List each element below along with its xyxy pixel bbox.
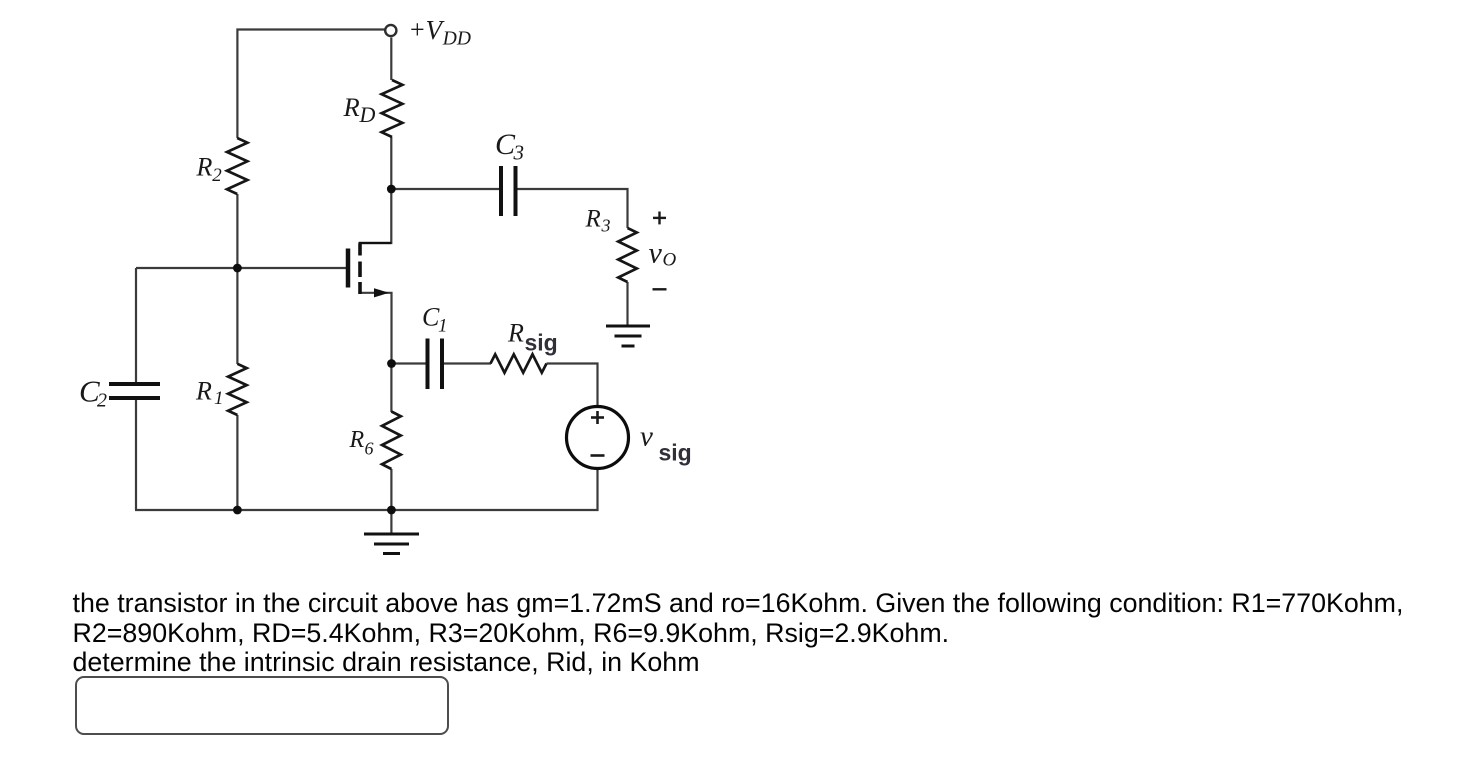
svg-text:1: 1 xyxy=(438,316,448,337)
svg-text:2: 2 xyxy=(97,390,107,412)
wire gate lead xyxy=(136,267,346,269)
wire drain node to C3 left plate xyxy=(391,188,499,190)
label vo minus xyxy=(653,288,667,290)
svg-text:R: R xyxy=(195,377,212,406)
source vsig plus sign xyxy=(591,411,604,424)
svg-text:+: + xyxy=(410,15,425,44)
wire source node to C1 left plate xyxy=(392,362,427,364)
wire Rsig to vsig top xyxy=(547,364,598,407)
svg-text:R: R xyxy=(507,319,524,348)
transistor Q1 source arrow xyxy=(374,288,389,297)
svg-text:D: D xyxy=(359,102,376,127)
VDD terminal circle xyxy=(385,25,396,36)
svg-text:R: R xyxy=(196,152,213,181)
svg-text:2: 2 xyxy=(212,165,222,186)
svg-text:1: 1 xyxy=(214,388,224,409)
wire C3 right plate to R3 top xyxy=(518,189,628,228)
resistor R6 xyxy=(382,412,401,470)
resistor RD xyxy=(382,80,403,137)
label vo plus xyxy=(653,212,666,225)
capacitor C2 xyxy=(109,384,160,398)
svg-text:DD: DD xyxy=(442,29,471,50)
source vsig minus sign xyxy=(591,454,605,457)
node gate xyxy=(233,264,242,273)
wire source node to R6 top xyxy=(390,364,392,412)
ground main xyxy=(364,534,419,554)
question text xyxy=(73,589,1404,678)
node drain xyxy=(387,185,396,194)
wire RD bottom to drain node xyxy=(390,137,392,189)
svg-text:R: R xyxy=(349,427,365,453)
resistor R3 xyxy=(618,228,637,282)
resistor R2 xyxy=(227,138,247,194)
svg-text:sig: sig xyxy=(659,440,692,466)
wire R3 bottom to its ground xyxy=(626,282,628,326)
node bottom-ground xyxy=(387,506,396,515)
capacitor C1 xyxy=(428,339,443,390)
wire left branch down to C2 top plate xyxy=(135,268,137,384)
wire R1 bottom to bottom rail xyxy=(236,415,238,510)
wire drain node down to transistor drain xyxy=(359,189,391,243)
svg-text:3: 3 xyxy=(513,140,525,164)
svg-text:3: 3 xyxy=(601,216,611,236)
wire transistor source to source node xyxy=(359,293,392,364)
node bottom-left xyxy=(233,506,242,515)
svg-text:v: v xyxy=(640,421,653,453)
svg-text:O: O xyxy=(663,250,677,271)
wire top rail from R2 to VDD terminal xyxy=(237,30,384,139)
wire ground stub below bottom rail xyxy=(390,510,392,534)
wire C1 right plate to Rsig xyxy=(444,362,492,364)
svg-text:6: 6 xyxy=(365,439,374,459)
wire bottom rail xyxy=(135,470,598,511)
svg-text:R: R xyxy=(343,92,360,122)
svg-text:sig: sig xyxy=(525,330,558,356)
wire VDD terminal to RD top xyxy=(390,38,392,81)
node source xyxy=(387,359,396,368)
transistor Q1 (NMOS) xyxy=(348,243,391,294)
wire C2 bottom plate to bottom rail xyxy=(135,398,137,510)
source vsig circle xyxy=(567,407,629,469)
capacitor C3 xyxy=(501,166,516,216)
wire R6 bottom to ground node xyxy=(390,469,392,510)
answer input box xyxy=(75,676,449,735)
wire R2 bottom through gate node to R1 top xyxy=(236,194,238,364)
resistor Rsig xyxy=(491,354,547,372)
ground at R3 xyxy=(606,326,650,346)
svg-text:R: R xyxy=(585,206,601,233)
resistor R1 xyxy=(228,364,247,415)
svg-text:v: v xyxy=(649,237,663,270)
